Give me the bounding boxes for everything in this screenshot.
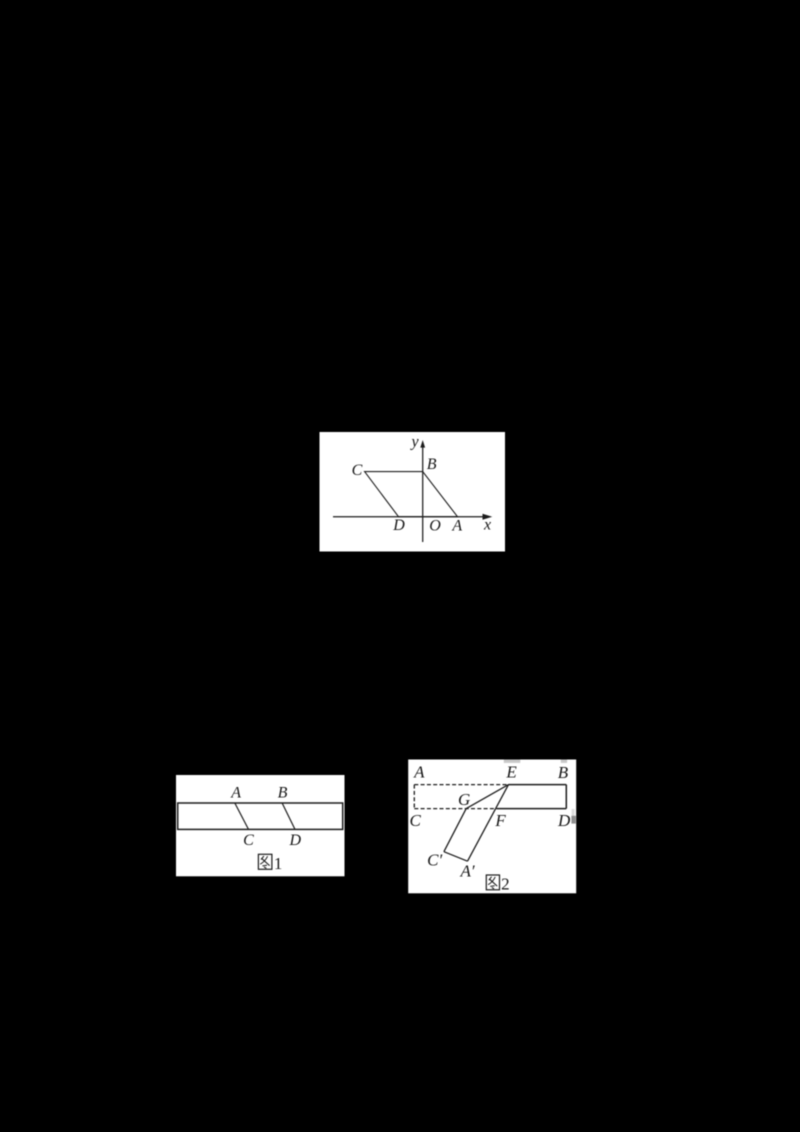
svg-text:O: O	[429, 517, 441, 534]
svg-text:A: A	[413, 763, 425, 782]
white panel: fig 1	[176, 775, 345, 876]
svg-text:D: D	[392, 517, 405, 534]
svg-text:C: C	[243, 832, 254, 849]
crease E-G	[466, 785, 508, 809]
svg-text:E: E	[505, 763, 517, 782]
folded quadrilateral E-G-C'-A'	[444, 785, 509, 862]
edge A'-E	[468, 785, 509, 862]
strip rectangle fig1	[178, 803, 343, 829]
gray square near D	[571, 816, 575, 824]
gray smudge top left	[504, 760, 521, 763]
svg-text:A: A	[451, 517, 462, 534]
svg-text:D: D	[289, 832, 302, 849]
line A-C	[235, 803, 249, 829]
svg-text:C: C	[352, 462, 363, 479]
gray smudge top right	[561, 760, 567, 763]
caption 图2	[486, 875, 499, 890]
solid strip right part EBDF	[497, 785, 566, 809]
svg-text:C: C	[410, 811, 422, 830]
svg-text:B: B	[427, 456, 437, 473]
caption 图1	[258, 854, 272, 869]
svg-text:A: A	[230, 784, 241, 801]
svg-text:B: B	[278, 784, 288, 801]
svg-text:B: B	[558, 763, 569, 782]
svg-text:1: 1	[274, 854, 283, 873]
white panel: fig 2	[408, 760, 576, 894]
svg-text:F: F	[494, 811, 506, 830]
svg-text:D: D	[557, 811, 571, 830]
white panel: coordinate figure	[320, 432, 506, 552]
line B-D	[282, 803, 295, 829]
dashed rectangle ACFE (original strip position)	[414, 785, 508, 809]
svg-text:2: 2	[501, 874, 510, 893]
y-axis	[420, 440, 425, 542]
svg-text:y: y	[409, 433, 419, 450]
svg-text:x: x	[483, 516, 491, 533]
svg-text:G: G	[458, 790, 470, 809]
parallelogram CBAD	[365, 472, 458, 517]
gray tick right edge	[572, 809, 575, 816]
svg-text:A′: A′	[460, 862, 475, 881]
x-axis	[333, 514, 492, 520]
edge G-C'	[444, 809, 466, 852]
edge C'-A'	[444, 852, 468, 862]
svg-text:C′: C′	[427, 850, 442, 869]
